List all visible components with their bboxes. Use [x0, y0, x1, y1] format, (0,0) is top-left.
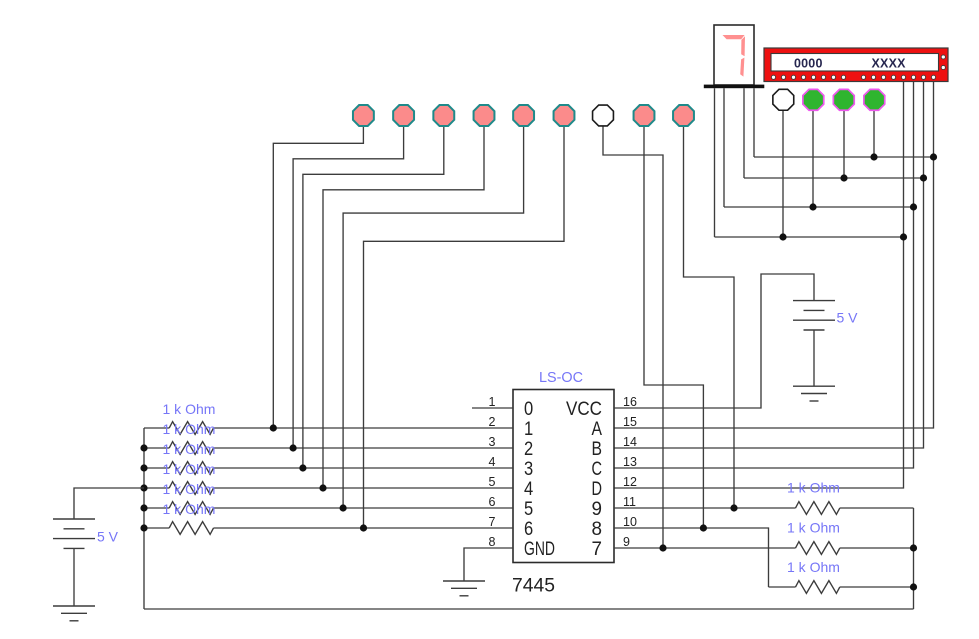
svg-text:6: 6 [489, 495, 496, 509]
wire +5V vertical bus [143, 428, 145, 609]
svg-text:1: 1 [489, 395, 496, 409]
LED X5 (red probe, output 5) [513, 105, 534, 126]
LED X4 (red probe, output 4) [474, 105, 495, 126]
junction R9 to common [910, 583, 917, 590]
wire 7seg pin2 to C line [723, 88, 725, 207]
resistor R1 label 1 k Ohm [163, 401, 216, 417]
junction C line / display wire [910, 203, 917, 210]
svg-text:5 V: 5 V [837, 310, 859, 326]
wire +5V bus to IC pin 3 through resistor R2 [144, 442, 513, 455]
wire net D horizontal [715, 236, 904, 238]
svg-text:A: A [592, 419, 603, 440]
IC U1 right pin numbers 16-9 [623, 395, 637, 549]
seven-segment display U2 body [714, 25, 754, 85]
ground symbol left [53, 606, 95, 621]
svg-text:VCC: VCC [566, 399, 602, 420]
wire LED6 to resistor row 6 [364, 125, 565, 529]
wire IC pin 16 VCC to battery V2 [614, 274, 814, 408]
wire LED3 to resistor row 3 [303, 125, 444, 469]
wire bottom +5V rail [144, 608, 914, 610]
hex display pin dots [771, 75, 935, 79]
resistor R7 label 1 k Ohm [787, 480, 840, 496]
svg-text:9: 9 [623, 535, 630, 549]
wire net A horizontal [754, 156, 934, 158]
wire LED X11 to C line [812, 110, 814, 207]
battery V1 label 5 V [97, 529, 119, 545]
svg-text:1 k Ohm: 1 k Ohm [163, 421, 216, 437]
seven-segment display base bar [704, 85, 765, 89]
wire +5V bus to IC pin 2 through resistor R1 [144, 422, 513, 435]
svg-text:1 k Ohm: 1 k Ohm [787, 520, 840, 536]
IC U1 right pin labels A-D 9 8 7 [592, 419, 603, 560]
svg-text:XXXX: XXXX [872, 57, 907, 71]
wire LED X13 to A line [873, 110, 875, 157]
resistor R6 label 1 k Ohm [163, 501, 216, 517]
battery V2 [793, 301, 835, 330]
IC U1 7445 body [513, 390, 614, 563]
svg-text:1 k Ohm: 1 k Ohm [787, 480, 840, 496]
wire IC pin 8 GND [464, 548, 513, 581]
IC U1 pin 1 stub (output 0) [472, 407, 513, 409]
svg-text:LS-OC: LS-OC [539, 369, 583, 386]
junctions LED wires to resistor rows [270, 424, 367, 531]
wire hex display C to chip pin 13 [614, 82, 914, 469]
svg-text:14: 14 [623, 435, 637, 449]
svg-text:4: 4 [524, 479, 534, 500]
seven-segment digit 7 segment b [741, 36, 745, 56]
IC U1 left pin labels 0-6 [524, 399, 534, 540]
ground symbol right [793, 386, 835, 401]
svg-text:4: 4 [489, 455, 496, 469]
IC U1 label LS-OC [539, 369, 583, 386]
svg-text:7: 7 [592, 539, 603, 560]
LED X12 (green probe, bit B) [833, 89, 854, 110]
svg-text:D: D [592, 479, 603, 500]
junction D line / display wire [900, 233, 907, 240]
wire LED X12 to B line [843, 110, 845, 178]
svg-text:1 k Ohm: 1 k Ohm [163, 401, 216, 417]
IC U1 left pin numbers 1-8 [489, 395, 496, 549]
svg-text:1 k Ohm: 1 k Ohm [163, 441, 216, 457]
svg-text:6: 6 [524, 519, 533, 540]
LED X7 (white probe, output 7) [593, 105, 614, 126]
LED X1 (red probe, output 1) [353, 105, 374, 126]
svg-text:2: 2 [524, 439, 533, 460]
svg-text:5: 5 [524, 499, 533, 520]
hex display text 0000 [794, 57, 823, 71]
wire +5V bus to IC pin 4 through resistor R3 [144, 462, 513, 475]
svg-text:2: 2 [489, 415, 496, 429]
wire LED5 to resistor row 5 [343, 125, 523, 509]
svg-text:1 k Ohm: 1 k Ohm [787, 559, 840, 575]
LED X6 (red probe, output 6) [554, 105, 575, 126]
svg-text:C: C [592, 459, 603, 480]
wire LED1 to resistor row 1 [273, 125, 363, 429]
resistor R9 label 1 k Ohm [787, 559, 840, 575]
battery V1 [53, 519, 95, 548]
svg-text:11: 11 [623, 495, 636, 509]
wire battery V2 to ground [813, 330, 815, 386]
wire 7seg pin4 to A line [753, 88, 755, 157]
svg-text:7: 7 [489, 515, 496, 529]
svg-text:1: 1 [524, 419, 533, 440]
wire hex display B to chip pin 14 [614, 82, 924, 449]
wire +5V bus to IC pin 6 through resistor R5 [144, 502, 513, 515]
LED X10 (white probe, bit D) [773, 89, 794, 110]
svg-text:5: 5 [489, 475, 496, 489]
junction R8 to common [910, 544, 917, 551]
wire +5V bus to IC pin 5 through resistor R4 [144, 482, 513, 495]
wire LED X10 to D line [782, 110, 784, 237]
svg-text:7445: 7445 [512, 576, 555, 597]
wire +5V bus to IC pin 7 through resistor R6 [144, 522, 513, 535]
hex display text XXXX [872, 57, 907, 71]
junction LED X8 wire to pin 10 row [700, 524, 707, 531]
resistor R3 label 1 k Ohm [163, 441, 216, 457]
IC U1 part number 7445 [512, 576, 555, 597]
junctions on +5V bus [140, 444, 147, 531]
junction C line / LED X11 [809, 203, 816, 210]
svg-text:3: 3 [489, 435, 496, 449]
hex display side dots [941, 55, 945, 70]
wire net B horizontal [744, 177, 924, 179]
svg-text:12: 12 [623, 475, 637, 489]
svg-text:3: 3 [524, 459, 533, 480]
svg-text:15: 15 [623, 415, 637, 429]
wire pin 10 row through resistor R9 [614, 528, 914, 593]
svg-text:1 k Ohm: 1 k Ohm [163, 461, 216, 477]
seven-segment digit 7 segment c [740, 58, 744, 77]
battery V2 label 5 V [837, 310, 859, 326]
wire right resistor common vertical [913, 508, 915, 609]
LED X8 (red probe, output 8) [634, 105, 655, 126]
seven-segment digit 7 segment a [723, 35, 745, 39]
wire LED4 to resistor row 4 [323, 125, 484, 489]
junction LED X9 wire to pin 11 row [730, 504, 737, 511]
junction A line / display wire [930, 153, 937, 160]
svg-text:1 k Ohm: 1 k Ohm [163, 481, 216, 497]
junction B line / display wire [920, 174, 927, 181]
ground symbol at IC U1 [443, 581, 485, 596]
LED X11 (green probe, bit C) [803, 89, 824, 110]
svg-text:B: B [592, 439, 603, 460]
svg-text:10: 10 [623, 515, 637, 529]
resistor R5 label 1 k Ohm [163, 481, 216, 497]
LED X2 (red probe, output 2) [393, 105, 414, 126]
wire LED2 to resistor row 2 [293, 125, 404, 449]
svg-text:8: 8 [592, 519, 603, 540]
wire 7seg pin3 to B line [743, 88, 745, 178]
wire hex display D to chip pin 12 [614, 82, 904, 489]
LED X13 (green probe, bit A) [864, 89, 885, 110]
wire LED X8 to pin 10 net [644, 125, 703, 529]
IC U1 pin label VCC [566, 399, 602, 420]
svg-text:8: 8 [489, 535, 496, 549]
svg-text:GND: GND [524, 539, 555, 560]
LED X3 (red probe, output 3) [433, 105, 454, 126]
svg-text:16: 16 [623, 395, 637, 409]
wire pin 11 row through resistor R7 [614, 502, 914, 515]
svg-text:9: 9 [592, 499, 603, 520]
svg-text:0000: 0000 [794, 57, 823, 71]
wire LED X9 to pin 11 net [684, 125, 735, 509]
wire LED X7 to pin 9 net [603, 125, 663, 549]
svg-text:5 V: 5 V [97, 529, 119, 545]
svg-text:13: 13 [623, 455, 637, 469]
wire net C horizontal [724, 206, 914, 208]
resistor R8 label 1 k Ohm [787, 520, 840, 536]
wire battery V1 to ground [73, 548, 75, 606]
junction A line / LED X13 [870, 153, 877, 160]
resistor R2 label 1 k Ohm [163, 421, 216, 437]
resistor R4 label 1 k Ohm [163, 461, 216, 477]
wire 7seg pin1 to D line [714, 88, 716, 237]
junction D line / LED X10 [779, 233, 786, 240]
junction B line / LED X12 [840, 174, 847, 181]
wire battery V1 to +5V bus [74, 488, 144, 519]
IC U1 pin label GND [524, 539, 555, 560]
svg-text:1 k Ohm: 1 k Ohm [163, 501, 216, 517]
svg-text:0: 0 [524, 399, 533, 420]
LED X9 (red probe, output 9) [673, 105, 694, 126]
junction LED X7 wire to pin 9 row [659, 544, 666, 551]
wire pin 9 row through resistor R8 [614, 542, 914, 555]
hex display U3 body [764, 48, 948, 82]
wire hex display A to chip pin 15 [614, 82, 934, 429]
